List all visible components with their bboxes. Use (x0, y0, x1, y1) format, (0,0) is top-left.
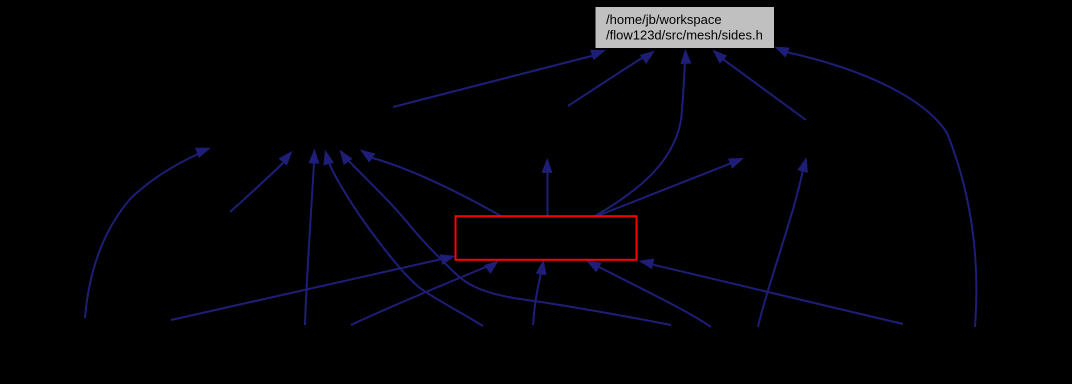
node current file (red border, black fill) (456, 216, 637, 260)
edge bottom-node3 -> nodeA (vertical) (305, 149, 320, 326)
edge nodeCD -> sides.h (713, 50, 807, 121)
node sides.h (root file, grey box) (596, 7, 775, 48)
edge nodeB -> sides.h (568, 51, 655, 107)
edge nodeA -> sides.h (393, 50, 606, 107)
edge current (red) node -> nodeB (vertical) (542, 158, 553, 216)
edge bottom-node1 -> nodeA (left curve) (85, 148, 211, 318)
edge current (red) node -> nodeA (360, 150, 501, 217)
edge bottom-node2 -> current (red) node (171, 254, 456, 320)
edge bottom-node10 -> current (red) node (639, 259, 904, 325)
edge bottom-node5 -> nodeA (S-curve sB) (323, 150, 483, 326)
edge bottom-node9 -> nodeCD (758, 157, 808, 327)
edge current (red) node -> nodeCD (597, 158, 744, 216)
edge bottom-node11 -> sides.h (big right curve) (774, 47, 976, 328)
edge bottom-node8 -> current (red) node (586, 260, 711, 327)
edge bottom-node6 -> current (red) node (533, 260, 547, 326)
edge current (red) node -> sides.h (S-curve) (595, 49, 692, 216)
svg-text:/flow123d/src/mesh/sides.h: /flow123d/src/mesh/sides.h (606, 28, 763, 43)
edge bottom-node4 -> current (red) node (351, 260, 499, 325)
svg-text:/home/jb/workspace: /home/jb/workspace (606, 12, 722, 27)
edge row3-left-node -> nodeA (230, 151, 293, 212)
edge bottom-node7 -> nodeA (big S-curve sA) (340, 150, 672, 325)
